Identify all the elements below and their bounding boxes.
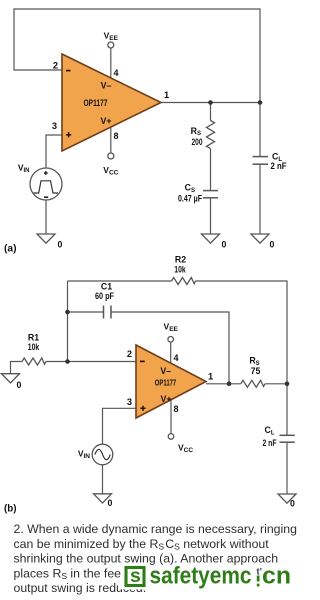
svg-text:10k: 10k <box>28 342 40 352</box>
svg-text:OP1177: OP1177 <box>155 379 177 388</box>
svg-text:RS: RS <box>191 126 201 137</box>
svg-text:60 pF: 60 pF <box>95 291 115 301</box>
svg-text:3: 3 <box>127 397 132 407</box>
svg-text:0.47 µF: 0.47 µF <box>178 194 202 204</box>
svg-text:C1: C1 <box>101 282 112 292</box>
svg-text:10k: 10k <box>174 265 186 275</box>
svg-text:0: 0 <box>108 498 113 508</box>
svg-text:3: 3 <box>52 121 57 131</box>
svg-text:s: s <box>130 565 141 587</box>
svg-text:VCC: VCC <box>103 165 118 177</box>
svg-text:R2: R2 <box>175 255 186 265</box>
svg-text:VEE: VEE <box>164 322 179 334</box>
svg-text:0: 0 <box>58 240 63 250</box>
svg-text:OP1177: OP1177 <box>84 98 108 108</box>
svg-text:0: 0 <box>290 499 295 509</box>
svg-text:VCC: VCC <box>178 443 193 455</box>
svg-text:V+: V+ <box>160 394 171 404</box>
svg-text:CL: CL <box>264 425 274 437</box>
svg-text:2 nF: 2 nF <box>271 161 288 171</box>
svg-text:4: 4 <box>114 68 119 78</box>
svg-text:2: 2 <box>127 349 132 359</box>
svg-text:75: 75 <box>251 366 261 376</box>
svg-text:2 nF: 2 nF <box>263 438 277 448</box>
svg-text:VIN: VIN <box>78 449 90 461</box>
svg-text:(a): (a) <box>4 243 17 255</box>
svg-text:200: 200 <box>192 137 203 147</box>
svg-text:t’: t’ <box>257 567 263 577</box>
svg-text:(b): (b) <box>4 503 17 515</box>
svg-text:0: 0 <box>17 380 22 390</box>
svg-text:V–: V– <box>101 81 112 91</box>
svg-text:4: 4 <box>174 353 179 363</box>
svg-text:1: 1 <box>208 372 213 382</box>
svg-text:VIN: VIN <box>18 163 30 175</box>
svg-text:CS: CS <box>185 182 195 194</box>
svg-text:cn: cn <box>262 563 291 590</box>
svg-text:8: 8 <box>114 131 119 141</box>
svg-text:can be minimized by the RSCS n: can be minimized by the RSCS network wit… <box>14 537 270 552</box>
svg-text:1: 1 <box>164 90 169 100</box>
svg-text:2: 2 <box>53 61 58 71</box>
svg-text:V–: V– <box>160 366 171 376</box>
svg-text:8: 8 <box>174 404 179 414</box>
svg-text:safetyemc: safetyemc <box>150 563 252 590</box>
svg-text:VEE: VEE <box>104 31 119 43</box>
svg-text:R1: R1 <box>28 332 39 342</box>
svg-text:2. When a wide dynamic range i: 2. When a wide dynamic range is necessar… <box>14 522 298 536</box>
svg-text:0: 0 <box>222 240 227 250</box>
svg-text:V+: V+ <box>100 116 111 126</box>
svg-text:0: 0 <box>270 240 275 250</box>
